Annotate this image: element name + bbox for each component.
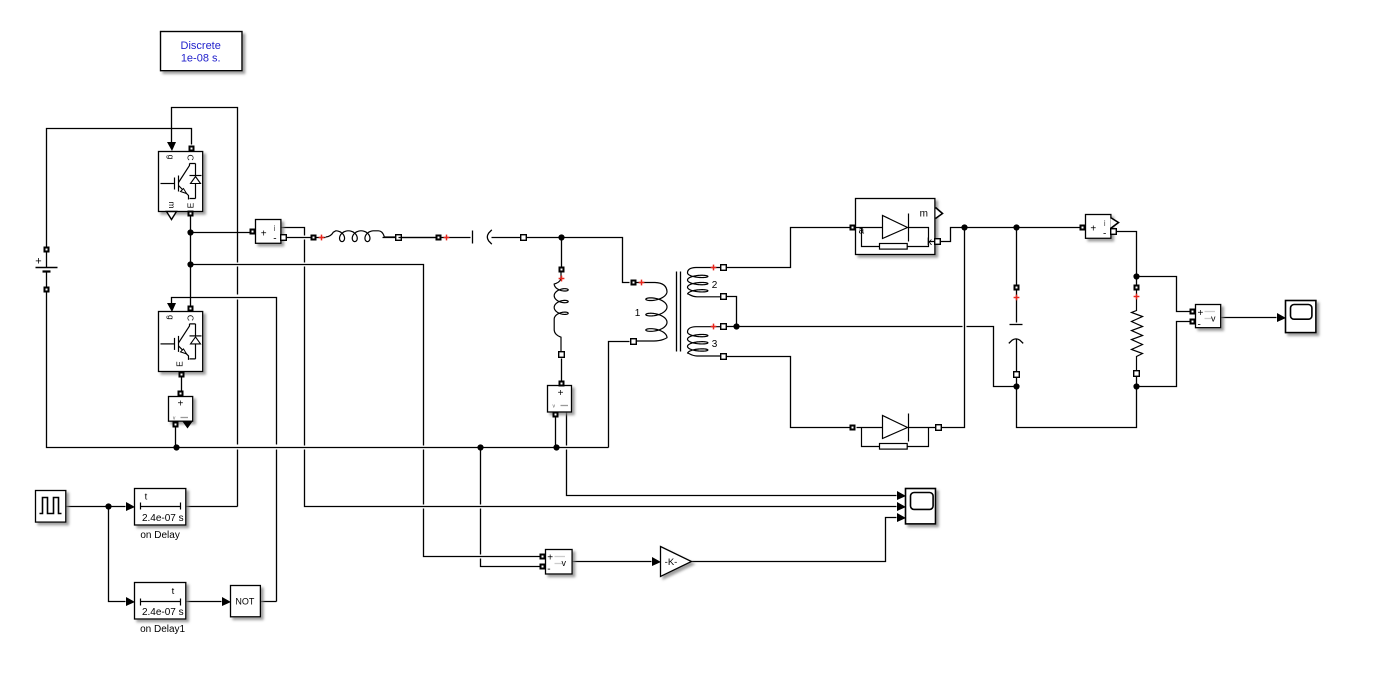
svg-text:2: 2 [712, 280, 718, 291]
wire bottom rail [177, 447, 609, 449]
current measurement i1 [256, 220, 281, 245]
filter capacitor C2 [1009, 288, 1023, 378]
inductor L1 [326, 231, 398, 242]
svg-text:g: g [166, 155, 176, 160]
wire NOT output riser [260, 601, 277, 603]
svg-text:-K-: -K- [665, 557, 678, 568]
IGBT U2 E port [179, 372, 185, 378]
diode D2 (lower) [857, 414, 936, 450]
svg-text:-: - [1198, 319, 1201, 330]
shunt inductor L2 [554, 267, 568, 353]
i1 minus port [281, 235, 287, 241]
svg-text:on Delay1: on Delay1 [140, 624, 185, 635]
wire node C to transformer primary [562, 238, 630, 283]
wire gate1 from on Delay riser [172, 108, 238, 507]
svg-text:+: + [177, 399, 183, 410]
wire load resistor bottom [1136, 377, 1138, 387]
i1 plus port [250, 229, 256, 235]
C2 top port [1014, 285, 1020, 291]
winding1 bottom port [631, 339, 637, 345]
svg-text:1e-08 s.: 1e-08 s. [181, 53, 221, 65]
svg-text:m: m [920, 209, 928, 220]
svg-text:-: - [547, 564, 550, 575]
Vm1 plus port [559, 381, 565, 387]
wire gain output to Scope1 input 3 [692, 518, 897, 562]
wire battery plus rail to IGBT1 collector [47, 129, 192, 247]
transformer core [677, 272, 681, 352]
on Delay block [135, 489, 186, 526]
wire L2 to Vm1 plus [561, 359, 563, 381]
svg-text:i: i [274, 223, 276, 233]
junction resistor bottom [1133, 383, 1139, 389]
winding2 red plus [711, 265, 717, 271]
pulse generator [36, 491, 66, 523]
voltage measurement Vleg [546, 550, 573, 576]
svg-text:2.4e-07 s: 2.4e-07 s [142, 513, 184, 524]
node B junction [187, 261, 193, 267]
wire node B to Vleg plus tap [191, 265, 541, 557]
wire L1 to series capacitor C1 [383, 237, 471, 239]
junction cap bottom [1013, 383, 1019, 389]
NOT input arrow [222, 597, 231, 606]
Scope1 input 2 arrow [897, 502, 906, 511]
D1 m unconnected chevron [936, 208, 943, 219]
Vo minus port [1190, 319, 1196, 325]
C2 red plus [1014, 295, 1020, 301]
svg-text:C: C [186, 315, 196, 321]
Scope1 input 3 arrow [897, 513, 906, 522]
wire capacitor C2 bottom [1016, 378, 1018, 387]
wire node C down to shunt inductor L2 [561, 238, 563, 267]
D1 internal diode [856, 214, 936, 250]
IGBT U1 E port [188, 211, 194, 217]
Scope1 input 1 arrow [897, 491, 906, 500]
NOT logic block [231, 586, 261, 617]
wire center tap to output return [727, 327, 1017, 387]
svg-text:+: + [35, 256, 41, 268]
wire bottom node to Vo minus [1137, 322, 1190, 387]
svg-text:E: E [186, 202, 196, 208]
wire node Q capacitor branch [1016, 228, 1018, 285]
svg-text:+: + [1090, 223, 1096, 234]
svg-text:i: i [1104, 218, 1106, 228]
C1 left port [436, 235, 442, 241]
L1 red plus [319, 235, 325, 241]
svg-text:-: - [273, 233, 276, 244]
gain block -K- [661, 547, 692, 577]
wire Vm2 minus to rail [175, 428, 177, 448]
DC voltage source V1 (battery) [36, 253, 58, 287]
winding3 red plus [711, 324, 717, 330]
wire node A to node B [190, 233, 192, 265]
load resistor R1 [1132, 288, 1143, 377]
junction center tap [733, 323, 739, 329]
wire node P along top rail to i2 [965, 227, 1081, 229]
IGBT U2 gate arrow [167, 303, 176, 312]
current measurement i2 [1086, 215, 1111, 240]
svg-text:v: v [1211, 314, 1216, 324]
wire winding3 minus to diode D2 anode [727, 357, 850, 428]
wire node R to load resistor [1136, 277, 1138, 285]
svg-text:3: 3 [712, 339, 718, 350]
wire Vm1 minus to rail [555, 418, 557, 448]
wire D1 cathode to node P [941, 228, 965, 242]
node Q junction [1013, 224, 1019, 230]
L2 top port [559, 267, 565, 273]
on Delay1 block [135, 583, 186, 620]
battery plus port [44, 247, 50, 253]
L1 right port [396, 235, 402, 241]
Vleg minus port [540, 564, 546, 570]
voltage measurement Vm2 (under IGBT U2) [169, 397, 193, 422]
C1 red plus [444, 235, 450, 241]
voltage measurement Vo [1196, 305, 1221, 331]
L1 left port [311, 235, 317, 241]
D2 cathode port [936, 425, 942, 431]
wire pulse generator to on Delay [66, 506, 126, 508]
wire D2 cathode up to node P [942, 228, 965, 428]
IGBT U2 (lower) [159, 312, 203, 372]
winding3 minus port [721, 354, 727, 360]
wire winding2 minus to center tap [727, 297, 737, 327]
svg-text:on Delay: on Delay [140, 530, 179, 541]
svg-text:g: g [166, 315, 176, 320]
wire on Delay1 to NOT [186, 601, 222, 603]
D1 cathode port [935, 239, 941, 245]
IGBT U1 C port [189, 146, 195, 152]
svg-text:C: C [186, 154, 196, 160]
Vo plus port [1190, 309, 1196, 315]
wire Vleg output to gain [572, 561, 652, 563]
svg-text:NOT: NOT [235, 597, 255, 607]
C2 bottom port [1014, 372, 1020, 378]
wire IGBT1 emitter to node A [191, 217, 250, 233]
svg-text:+: + [261, 228, 267, 239]
winding2 plus port [721, 265, 727, 271]
transformer winding 2 [688, 268, 721, 297]
wire bottom link cap to resistor [1017, 387, 1137, 428]
svg-text:m: m [167, 201, 177, 208]
Vm2 minus port [173, 422, 179, 428]
diode D1 block [856, 199, 935, 255]
wire i1 signal to Scope1 input 2 [281, 228, 897, 507]
svg-text:+: + [547, 553, 553, 564]
Scope1 [906, 489, 936, 524]
wire C1 to node C [492, 237, 562, 239]
wire node B to IGBT2 collector [190, 265, 192, 306]
R1 bottom port [1134, 371, 1140, 377]
IGBT U1 gate arrow [167, 142, 176, 151]
IGBT U1 (upper) [159, 152, 203, 212]
battery minus port [44, 287, 50, 293]
wire battery minus to ground rail [47, 293, 177, 448]
wire transformer winding1 return [609, 342, 630, 448]
i2 signal unconnected chevron [1111, 218, 1119, 229]
svg-text:E: E [175, 361, 185, 367]
i2 plus port [1080, 225, 1086, 231]
C1 right port [521, 235, 527, 241]
winding3 plus port [721, 324, 727, 330]
IGBT U2 C port [188, 306, 194, 312]
wire i1 minus to inductor L1 [284, 237, 326, 239]
junction pulse branch [105, 503, 111, 509]
gain input arrow [652, 557, 661, 566]
wire IGBT U2 emitter to Vm2 [181, 378, 183, 391]
R1 top port [1134, 285, 1140, 291]
winding2 minus port [721, 294, 727, 300]
D1 anode port [850, 225, 856, 231]
winding1 red plus [639, 280, 645, 286]
svg-text:2.4e-07 s: 2.4e-07 s [142, 607, 184, 618]
voltage measurement Vm1 [548, 386, 572, 413]
wire Vm1 signal to Scope1 input 1 [567, 412, 897, 496]
svg-text:+: + [558, 388, 564, 399]
powergui block Discrete 1e-08 s. [161, 32, 243, 71]
wire winding2 plus to diode D1 anode [727, 228, 850, 268]
junction rail at Vleg [477, 444, 483, 450]
wire L1 port to C1 port [399, 237, 439, 239]
node P junction [961, 224, 967, 230]
node A junction [187, 229, 193, 235]
Vm2 plus port [178, 391, 184, 397]
wire on Delay output riser [186, 506, 238, 508]
Vm2 signal unconnected arrow [183, 422, 193, 429]
transformer T1 winding 1 [633, 283, 667, 342]
L2 bottom port [559, 352, 565, 358]
on Delay1 input arrow [126, 597, 135, 606]
wire Vleg minus tap from rail [481, 448, 541, 567]
Scope2 [1286, 301, 1316, 333]
wire node R to Vo plus [1137, 277, 1190, 312]
L2 red plus [559, 276, 565, 282]
wire junction to on Delay1 [109, 507, 126, 602]
series capacitor C1 [473, 230, 492, 244]
svg-text:-: - [1103, 229, 1106, 240]
R1 red plus [1134, 294, 1140, 300]
svg-text:v: v [562, 558, 567, 568]
junction rail at Vm2 [173, 444, 179, 450]
svg-text:Discrete: Discrete [181, 40, 221, 52]
node R junction [1133, 273, 1139, 279]
transformer winding 3 [688, 327, 721, 356]
Vleg plus port [540, 554, 546, 560]
svg-text:t: t [145, 492, 148, 503]
wire i2 minus down to node R [1115, 232, 1137, 277]
Scope2 input arrow [1277, 313, 1286, 322]
svg-text:1: 1 [635, 308, 641, 319]
D2 anode port [850, 425, 856, 431]
junction rail at Vm1 [553, 444, 559, 450]
winding1 top port [631, 280, 637, 286]
wire Vo output to Scope2 [1221, 317, 1277, 319]
IGBT U1 m unconnected output [167, 212, 177, 220]
i2 minus port [1111, 229, 1117, 235]
Vm1 minus port [553, 412, 559, 418]
svg-text:t: t [172, 586, 175, 597]
on Delay input arrow [126, 502, 135, 511]
svg-text:+: + [1198, 308, 1204, 319]
wire gate2 from NOT riser [172, 298, 277, 602]
node C junction [558, 234, 564, 240]
